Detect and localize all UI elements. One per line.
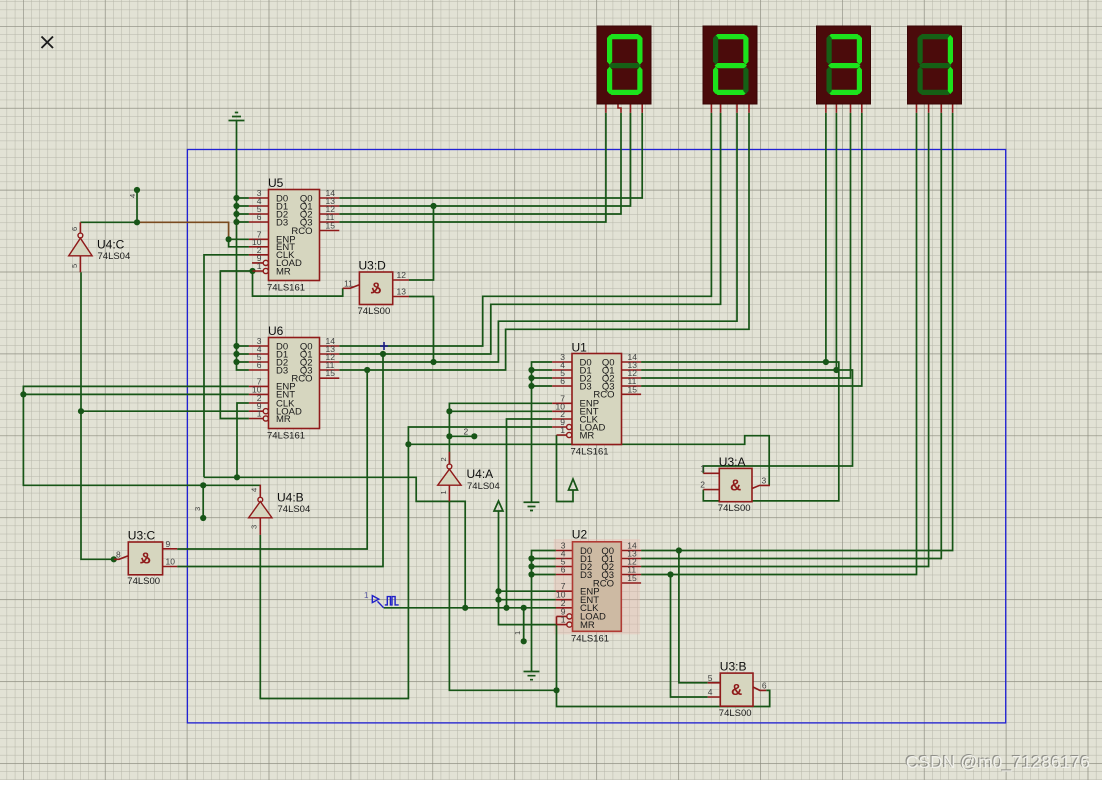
svg-text:5: 5 [70,264,79,268]
svg-text:&: & [730,478,741,495]
svg-text:74LS04: 74LS04 [467,481,500,492]
svg-text:RCO: RCO [593,390,614,401]
svg-text:RCO: RCO [291,226,312,237]
svg-text:U6: U6 [268,324,284,338]
svg-text:15: 15 [628,384,638,394]
svg-text:6: 6 [257,360,262,370]
svg-text:U3:C: U3:C [128,529,156,543]
svg-text:2: 2 [439,457,448,461]
svg-text:11: 11 [344,279,353,289]
svg-text:2: 2 [700,480,705,490]
svg-text:6: 6 [560,376,565,386]
svg-text:74LS161: 74LS161 [571,634,609,645]
svg-text:U2: U2 [572,528,588,542]
svg-text:15: 15 [326,368,336,378]
svg-text:6: 6 [70,227,79,231]
svg-text:74LS161: 74LS161 [571,447,609,458]
svg-text:74LS161: 74LS161 [267,283,305,294]
svg-text:CSDN @m0_71286176: CSDN @m0_71286176 [906,752,1090,773]
svg-text:6: 6 [762,680,767,690]
svg-text:10: 10 [166,557,176,567]
svg-text:1: 1 [364,591,369,600]
svg-text:1: 1 [439,490,448,494]
svg-text:1: 1 [560,425,565,435]
svg-text:4: 4 [128,194,137,198]
svg-text:1: 1 [561,615,566,625]
svg-text:U4:B: U4:B [277,491,304,505]
svg-text:RCO: RCO [593,578,614,589]
svg-text:74LS161: 74LS161 [267,431,305,442]
svg-text:U4:A: U4:A [467,467,494,481]
svg-text:9: 9 [166,539,171,549]
svg-text:74LS04: 74LS04 [278,504,311,515]
svg-text:MR: MR [276,414,291,425]
svg-text:74LS00: 74LS00 [358,306,391,317]
svg-text:2: 2 [464,427,469,437]
svg-text:D3: D3 [580,381,592,392]
svg-text:1: 1 [513,631,522,635]
svg-text:3: 3 [250,525,259,529]
svg-text:15: 15 [326,221,336,231]
svg-text:U3:B: U3:B [720,660,747,674]
svg-text:3: 3 [193,507,202,511]
svg-text:4: 4 [250,488,259,492]
svg-text:D3: D3 [276,217,288,228]
svg-text:8: 8 [116,549,121,559]
svg-text:74LS00: 74LS00 [127,576,160,587]
svg-text:1: 1 [257,261,262,271]
svg-text:RCO: RCO [291,374,312,385]
svg-text:D3: D3 [276,365,288,376]
svg-text:12: 12 [397,270,407,280]
svg-text:15: 15 [627,573,637,583]
svg-text:MR: MR [580,620,595,631]
svg-text:4: 4 [708,687,713,697]
svg-text:6: 6 [257,212,262,222]
svg-text:13: 13 [397,287,407,297]
svg-text:3: 3 [762,475,767,485]
svg-text:MR: MR [276,266,291,277]
svg-text:5: 5 [708,673,713,683]
svg-text:74LS04: 74LS04 [98,251,131,262]
svg-text:U3:D: U3:D [359,259,387,273]
svg-text:D3: D3 [580,570,592,581]
svg-text:1: 1 [257,409,262,419]
svg-text:&: & [370,281,381,298]
svg-text:MR: MR [580,430,595,441]
svg-text:74LS00: 74LS00 [719,708,752,719]
svg-text:74LS00: 74LS00 [718,503,751,514]
svg-text:&: & [731,682,742,699]
svg-text:U1: U1 [572,341,588,355]
svg-text:6: 6 [561,565,566,575]
svg-text:U5: U5 [268,176,284,190]
svg-text:U4:C: U4:C [97,238,125,252]
svg-text:U3:A: U3:A [719,455,746,469]
svg-text:1: 1 [700,463,705,473]
svg-text:&: & [140,551,151,568]
